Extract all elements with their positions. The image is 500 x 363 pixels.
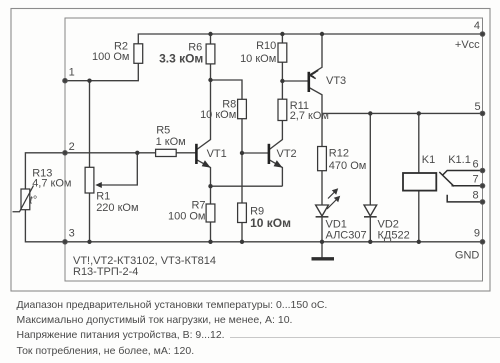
transistor VT2 <box>269 144 297 168</box>
svg-text:R10: R10 <box>256 40 276 52</box>
contact pin 6 fixed <box>442 171 482 176</box>
transistor VT1 <box>196 144 226 168</box>
svg-text:2,7 кОм: 2,7 кОм <box>290 110 329 122</box>
node R6 top rail <box>208 32 212 36</box>
svg-text:VD1: VD1 <box>326 218 347 230</box>
pin 7 <box>480 184 485 189</box>
node R1 wiper/pin2 <box>135 151 139 155</box>
svg-text:2: 2 <box>69 141 75 153</box>
faint fold line <box>230 337 500 339</box>
svg-text:4: 4 <box>474 20 480 32</box>
pin 8 <box>480 200 485 205</box>
wire VT3 collector down <box>309 88 322 114</box>
node K1 gnd <box>417 240 421 244</box>
diode VD2 <box>364 205 410 242</box>
resistor R10 <box>240 40 287 65</box>
svg-text:t°: t° <box>30 195 38 207</box>
node VT2 base/R8/R9 <box>240 151 244 155</box>
resistor R8 <box>200 99 246 122</box>
wire R13 bottom to pin 3 <box>25 210 65 242</box>
pin number labels <box>69 20 481 240</box>
svg-text:VT2: VT2 <box>277 148 297 160</box>
wire R7 bottom <box>210 222 212 242</box>
svg-text:100 Ом: 100 Ом <box>168 210 206 222</box>
transistor VT3 <box>309 70 346 92</box>
wire pin 2 line to R5 <box>65 152 156 154</box>
node R1 bottom gnd <box>87 240 91 244</box>
wire VD1 cathode to ground symbol <box>321 217 323 258</box>
node VT3 emitter rail <box>320 32 324 36</box>
svg-text:Напряжение питания устройства,: Напряжение питания устройства, В: 9...12… <box>17 329 225 341</box>
contact pin 7 line <box>452 185 483 187</box>
svg-text:K1: K1 <box>422 154 435 166</box>
wire R6 bottom to VT1 collector <box>197 64 211 150</box>
svg-text:7: 7 <box>473 174 479 186</box>
resistor R6 <box>159 41 215 65</box>
svg-text:1 кОм: 1 кОм <box>156 136 186 148</box>
node VD2 gnd <box>368 240 372 244</box>
wire R1 bottom <box>89 193 91 242</box>
wire R5 to VT1 base <box>176 152 196 154</box>
wire R1 top column <box>89 81 91 168</box>
wire K1 coil bottom <box>418 191 420 242</box>
node R6/R8/VT1 collector <box>208 78 212 82</box>
svg-text:4,7 кОм: 4,7 кОм <box>32 178 71 190</box>
device box outline <box>65 18 483 281</box>
thermistor R13 <box>13 168 72 212</box>
pin 1 <box>63 78 68 83</box>
R1 wiper arrow <box>95 182 102 188</box>
svg-text:КД522: КД522 <box>378 230 410 242</box>
svg-text:220 кОм: 220 кОм <box>96 202 138 214</box>
VD1 emission arrows <box>327 188 340 209</box>
LED VD1 <box>316 188 367 241</box>
resistor R2 <box>92 40 143 63</box>
svg-text:R5: R5 <box>156 124 170 136</box>
spec text block <box>17 299 328 357</box>
svg-text:R1: R1 <box>96 190 110 202</box>
wire R12 top <box>321 113 323 146</box>
pin 2 <box>63 151 68 156</box>
svg-text:470 Ом: 470 Ом <box>329 160 367 172</box>
svg-text:VT1: VT1 <box>207 148 227 160</box>
outer border frame <box>11 9 490 292</box>
svg-text:9: 9 <box>474 228 480 240</box>
contact pin 8 fixed <box>447 195 482 202</box>
pin 3 <box>63 240 68 245</box>
svg-text:+Vcc: +Vcc <box>455 39 480 51</box>
node pin1/R1 <box>87 79 91 83</box>
wire R2 bottom to pin 1 line <box>65 63 138 80</box>
wire VT2 collector to R11 <box>269 121 282 150</box>
svg-text:100 Ом: 100 Ом <box>92 51 130 63</box>
ground symbol <box>312 257 335 260</box>
svg-text:VD2: VD2 <box>378 218 399 230</box>
pin 9 <box>480 240 485 245</box>
wire K1 coil top <box>418 113 420 173</box>
wire R7 column <box>210 186 212 204</box>
wire VT3 emitter to +Vcc <box>309 34 322 75</box>
node R7 gnd <box>208 240 212 244</box>
wire R9 bottom <box>241 223 243 242</box>
wire R8 bottom to VT2 base <box>242 119 268 153</box>
wire VD2 column top <box>369 113 371 205</box>
node VD1 gnd <box>320 240 324 244</box>
wire node to R8 top <box>211 80 243 99</box>
wire VD2 cathode to ground rail <box>369 217 371 242</box>
resistor R11 <box>278 99 329 122</box>
pin 5 <box>480 111 485 116</box>
wire +Vcc rail <box>138 34 482 44</box>
svg-text:10 кОм: 10 кОм <box>250 216 291 230</box>
svg-text:10 кОм: 10 кОм <box>240 53 276 65</box>
node rail VD2 <box>368 111 372 115</box>
wire R11 top to node <box>281 81 283 99</box>
node rail K1 <box>417 111 421 115</box>
node VT1 emitter/R7 <box>208 184 212 188</box>
wire pin 5 rail <box>322 112 483 114</box>
resistor R12 <box>318 147 367 173</box>
wire R10 top <box>281 34 283 43</box>
wire VT1 emitter <box>197 160 211 186</box>
svg-text:1: 1 <box>69 67 75 79</box>
svg-text:R13-ТРП-2-4: R13-ТРП-2-4 <box>73 266 138 278</box>
wire R1 wiper riser <box>100 153 137 185</box>
wire ground rail pin3 to pin9 <box>65 241 483 243</box>
svg-text:АЛС307: АЛС307 <box>326 230 367 242</box>
pin 4 <box>480 32 485 37</box>
resistor R5 <box>156 124 186 156</box>
wire emitters rail <box>211 185 283 187</box>
wire VT3 base <box>282 80 308 82</box>
relay contacts K1.1 <box>439 154 482 202</box>
svg-text:3: 3 <box>69 228 75 240</box>
svg-text:6: 6 <box>473 158 479 170</box>
node R10 top rail <box>280 32 284 36</box>
potentiometer R1 <box>85 167 138 214</box>
wire R12 to VD1 <box>321 171 323 205</box>
wire pin 2 to R13 top <box>25 153 65 189</box>
svg-text:VT3: VT3 <box>326 75 346 87</box>
wire VT2 emitter <box>269 160 282 186</box>
svg-text:Ток потребления, не более, мА:: Ток потребления, не более, мА: 120. <box>17 345 195 357</box>
pin 6 <box>480 168 485 173</box>
node R10/R11/VT3 base <box>280 79 284 83</box>
svg-text:Максимально допустимый ток наг: Максимально допустимый ток нагрузки, не … <box>17 314 293 326</box>
svg-text:GND: GND <box>455 249 480 261</box>
wire R6 top <box>210 34 212 44</box>
svg-text:3.3 кОм: 3.3 кОм <box>159 51 203 65</box>
svg-text:8: 8 <box>473 190 479 202</box>
wire VT2 base node to R9 <box>241 153 243 203</box>
svg-text:Диапазон предварительной устан: Диапазон предварительной установки темпе… <box>17 299 328 311</box>
contact movable arm <box>439 172 454 186</box>
wire R10 bottom <box>281 62 283 81</box>
svg-text:R12: R12 <box>329 148 349 160</box>
resistor R7 <box>168 200 215 223</box>
svg-text:5: 5 <box>475 101 481 113</box>
node R9 gnd <box>240 240 244 244</box>
resistor R9 <box>238 203 292 230</box>
pin terminals <box>63 32 485 244</box>
svg-text:K1.1: K1.1 <box>448 154 471 166</box>
svg-text:10 кОм: 10 кОм <box>200 109 236 121</box>
relay coil K1 <box>403 154 436 191</box>
